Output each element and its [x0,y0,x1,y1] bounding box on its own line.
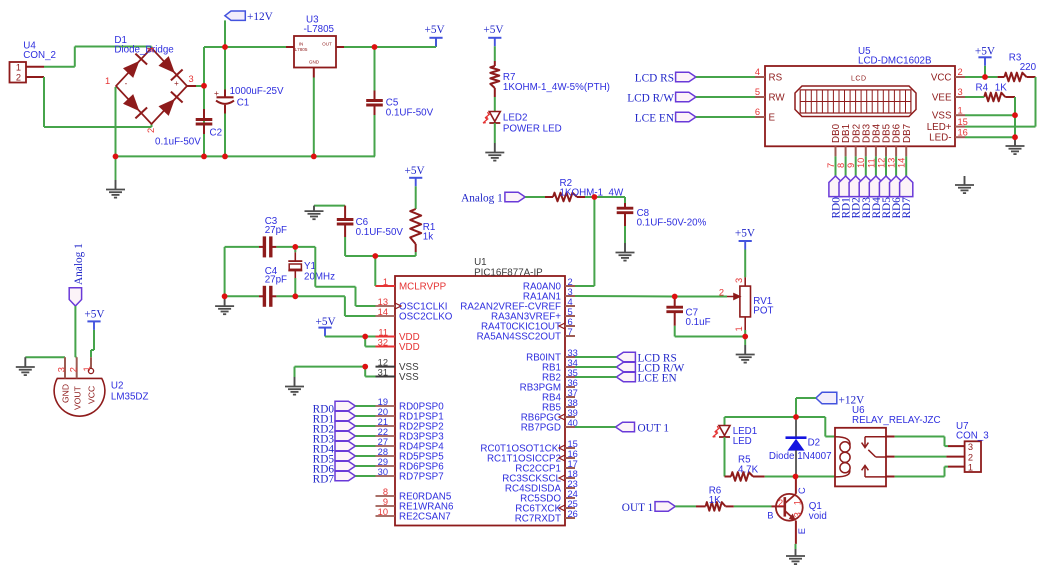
svg-text:30: 30 [378,467,388,477]
svg-text:20MHz: 20MHz [304,272,335,283]
wire node to MCLR [375,256,378,286]
svg-text:Diode_Bridge: Diode_Bridge [114,45,174,56]
wire RD4 to pin [355,445,375,447]
wire D2 top segment [795,417,797,437]
svg-text:C1: C1 [237,98,250,109]
svg-text:0.1UF-50V: 0.1UF-50V [386,107,434,118]
junction Y1 top [292,244,298,250]
svg-text:MCLRVPP: MCLRVPP [399,282,447,293]
svg-text:B: B [767,511,773,521]
svg-text:LCE EN: LCE EN [635,113,674,125]
pin 5 RA3AN3VREF+ [491,307,575,323]
net flag LCE EN at PIC [616,372,676,384]
junction C5 tap [372,44,378,50]
svg-text:VCC: VCC [87,386,97,404]
diode bridge D1 [105,35,194,133]
svg-text:5: 5 [755,87,760,97]
capacitor C2 [155,109,222,148]
wire RD3 to pin [355,435,375,437]
pin 26 RC7RXDT [515,509,578,525]
wire Y1 top [294,247,296,252]
net flag LCD RS at PIC [616,352,676,364]
svg-text:1: 1 [82,366,92,371]
wire C1 bottom [224,114,226,157]
junction relay +12V [793,414,799,420]
net flag RD7 at LCD [900,176,914,219]
svg-text:28: 28 [378,447,388,457]
svg-text:LCD R/W: LCD R/W [627,93,674,105]
ground above C6 [305,206,324,220]
svg-text:PIC16F877A-IP: PIC16F877A-IP [474,267,543,278]
pin 33 RB0INT [526,348,578,364]
wire +5V to pot [744,250,746,278]
svg-text:24: 24 [568,489,578,499]
junction rail C1 [222,154,228,160]
wire LED1 to R5 [724,437,726,477]
svg-text:13: 13 [887,158,897,168]
power +5V above RV1 [735,228,756,250]
svg-text:-: - [125,79,128,88]
junction LCD VSS [1012,112,1018,118]
wire VSS pin31 [365,367,375,377]
svg-text:3: 3 [57,367,67,372]
svg-text:+5V: +5V [84,309,105,321]
junction LCD VCC [982,74,988,80]
pin 22 RD3PSP3 [376,427,445,443]
wire LED2 to ground [494,123,496,143]
wire +12V to node [796,398,816,417]
stub D1.3 [187,85,196,87]
pin 27 RD4PSP4 [376,437,445,453]
svg-text:RD7: RD7 [313,473,335,485]
wire Y1 bottom [294,278,296,296]
svg-text:+5V: +5V [735,228,756,240]
junction rail left [113,154,119,160]
svg-text:OSC2CLKO: OSC2CLKO [399,312,453,323]
svg-text:8: 8 [383,487,388,497]
wire RD2 to pin [355,425,375,427]
connector U4 CON_2 [10,41,56,83]
power flag +12V at relay [816,392,865,406]
svg-text:6: 6 [568,317,573,327]
svg-text:9: 9 [846,163,856,168]
junction RA0 net [592,194,598,200]
pin 2 RA0AN0 [523,277,575,293]
LCD module U5 LCD-DMC1602B [755,46,968,168]
ground below rail [106,156,125,197]
net flag OUT 1 at Q1 [622,502,676,514]
wire RD0 to pin [355,405,375,407]
wire RD1 to pin [355,415,375,417]
relay U6 RELAY_RELAY-JZC [835,405,941,486]
svg-text:E: E [797,528,807,534]
wire DB6 to flag [895,156,897,176]
pin 15 RC0T1OSOT1CKI [480,439,577,455]
svg-text:27pF: 27pF [265,274,287,285]
svg-text:D2: D2 [808,438,821,449]
wire pin to LCD R/W [575,366,616,368]
junction collector node [793,474,799,480]
stub relay NO [886,476,895,478]
junction LCD LED- [1012,134,1018,140]
svg-text:36: 36 [568,378,578,388]
svg-text:3: 3 [568,287,573,297]
svg-text:+5V: +5V [425,24,446,36]
wire relay NC to CON3.3 [895,437,948,447]
net flag RD7 [313,471,356,485]
svg-text:Analog 1: Analog 1 [461,193,503,205]
wire +12V stem [224,20,226,47]
wire U4.1 to D1.4 [44,47,152,67]
svg-text:RELAY_RELAY-JZC: RELAY_RELAY-JZC [852,415,941,426]
net flag Analog 1 (R2) [461,192,525,204]
wire C3 right [276,246,295,248]
pin 9 RE1WRAN6 [376,497,454,513]
pin 1 MCLRVPP [376,277,447,293]
svg-text:LCD-DMC1602B: LCD-DMC1602B [858,55,932,66]
junction pot bottom [742,334,748,340]
pin 19 RD0PSP0 [376,397,445,413]
net flag RD3 [313,431,356,445]
resistor R5 [725,455,765,481]
net flag LCD R/W at LCD [627,92,696,104]
power +5V at LCD VCC [975,45,996,65]
svg-text:3: 3 [958,87,963,97]
pin 25 RC6TXCK [515,499,578,515]
power +5V above R7 [483,24,504,46]
wire R3 to LED+ [965,77,1036,127]
wire +5V to VDD [325,335,365,337]
wire C3 left [225,246,259,248]
stub relay NC [886,436,895,438]
pin 35 RB2 [542,368,578,384]
svg-text:RD7PSP7: RD7PSP7 [399,472,444,483]
svg-text:POT: POT [753,306,773,317]
ground at VSS [285,377,304,395]
svg-text:23: 23 [568,479,578,489]
svg-text:OUT 1: OUT 1 [622,502,654,514]
svg-text:16: 16 [568,449,578,459]
wire pot bottom [744,330,746,337]
wire R1 bottom [415,252,417,256]
floating ground [955,176,974,193]
pin 8 RE0RDAN5 [376,487,452,503]
ground below LED2 [485,143,504,161]
svg-text:RW: RW [769,92,786,103]
svg-text:1: 1 [968,462,973,472]
wire U3 GND down [313,78,315,157]
net flag RD4 at LCD [869,176,883,219]
svg-text:LCD RS: LCD RS [635,73,674,85]
svg-text:R4: R4 [976,82,989,93]
potentiometer RV1 POT [719,277,774,331]
pin 23 RC4SDISDA [505,479,578,495]
pin 40 RB7PGD [521,418,578,434]
svg-text:GND: GND [61,384,71,403]
resistor R6 [696,486,734,511]
svg-text:Analog 1: Analog 1 [73,243,85,285]
svg-text:void: void [809,511,827,522]
wire DB5 to flag [885,156,887,176]
svg-text:+5V: +5V [316,316,337,328]
wire C6 top to ground [314,205,345,207]
svg-text:14: 14 [378,307,388,317]
pin 2 stub of U4 [26,76,44,78]
pin 6 RA4T0CKIC1OUT [481,317,575,333]
capacitor C8 [617,203,707,228]
wire OUT1 to R6 [675,505,696,507]
wire VSS to node [965,114,1015,116]
wire Y1 to OSC1 [295,247,375,306]
wire RA1 to pot [575,295,727,298]
wire C5 bottom [374,115,377,156]
regulator U3 -L7805 [294,15,336,68]
pin 20 RD1PSP1 [376,407,444,423]
svg-text:39: 39 [568,408,578,418]
svg-text:15: 15 [568,439,578,449]
wire RD6 to pin [355,465,375,467]
wire DB3 to flag [865,156,867,176]
net flag RD2 at LCD [849,176,863,219]
net flag LCE EN at LCD [635,112,696,124]
capacitor C7 [666,297,710,329]
svg-text:11: 11 [866,158,876,168]
svg-text:VOUT: VOUT [73,385,83,410]
ground at emitter [786,549,805,564]
svg-text:6: 6 [755,107,760,117]
LED LED2 [483,112,562,135]
wire relay COM to CON3.2 [895,456,947,458]
pin 29 RD6PSP6 [376,457,445,473]
wire pin to LCD RS [575,356,616,358]
wire relay NO to CON3.1 [895,467,948,477]
svg-text:Diode 1N4007: Diode 1N4007 [769,451,832,462]
net flag RD0 [313,401,356,415]
svg-text:1: 1 [105,76,110,86]
svg-text:26: 26 [568,509,578,519]
net flag RD1 [313,411,356,425]
svg-text:15: 15 [958,117,968,127]
net flag RD1 at LCD [839,176,853,219]
capacitor C1 [214,86,284,114]
power +5V at VDD [316,316,337,336]
wire DB2 to flag [855,156,857,176]
svg-text:4: 4 [146,47,156,52]
svg-text:RC7RXDT: RC7RXDT [515,514,561,525]
wire VSS down [294,367,296,377]
svg-text:Y1: Y1 [304,261,316,272]
svg-text:VSS: VSS [399,372,419,383]
svg-text:LED+: LED+ [927,122,952,133]
pin 37 RB4 [542,388,578,404]
svg-text:19: 19 [378,397,388,407]
stub CON3 pin2 [946,456,964,458]
wire C5 top [374,47,376,91]
svg-text:LM35DZ: LM35DZ [111,391,149,402]
wire LM35 GND [25,356,65,358]
wire C4 right [276,295,295,297]
svg-text:3: 3 [792,512,802,517]
power +5V at regulator output [425,24,446,46]
svg-text:RB7PGD: RB7PGD [521,423,561,434]
pin 24 RC5SDO [520,489,578,505]
pin 14 OSC2CLKO [376,307,453,323]
svg-text:2: 2 [778,498,783,508]
svg-text:0.1UF-50V-20%: 0.1UF-50V-20% [637,217,707,228]
pin 16 RC1T1OSICCP2 [487,449,578,465]
pin 21 RD2PSP2 [376,417,444,433]
pin 36 RB3PGM [520,378,578,394]
svg-text:1: 1 [958,105,963,115]
net flag RD2 [313,421,356,435]
pin 34 RB1 [542,358,578,374]
wire C6 bottom [345,237,375,256]
resistor R3 [998,53,1037,82]
wire node to relay coil bottom [796,476,835,478]
svg-text:VDD: VDD [399,342,420,353]
wire C8 to ground [624,226,626,243]
junction C7 top [672,294,678,300]
pin 39 RB6PGC [521,408,578,424]
svg-text:17: 17 [568,459,578,469]
svg-text:C: C [797,487,807,494]
power flag +12V [225,11,274,23]
wire node to R3 [985,76,998,78]
wire node to R1 [375,255,415,257]
svg-text:21: 21 [378,417,388,427]
wire +5V to VCC [91,330,94,357]
svg-text:8: 8 [836,163,846,168]
power +5V at LM35 [84,309,105,330]
wire R6 to base [734,505,772,507]
svg-text:4: 4 [568,297,573,307]
wire U3 OUT to +5V node [344,38,436,47]
pin 4 RA2AN2VREF-CVREF [460,297,575,313]
svg-text:14: 14 [897,158,907,168]
capacitor C3 [259,216,287,257]
svg-text:9: 9 [383,497,388,507]
power +5V above R1 [405,165,426,186]
svg-text:11: 11 [378,327,388,337]
pin 32 VDD [376,337,420,353]
svg-text:LCD: LCD [851,76,867,83]
wire LED- to node [965,136,1015,138]
svg-text:+: + [214,88,219,98]
svg-text:1: 1 [16,62,21,72]
svg-text:38: 38 [568,398,578,408]
junction VSS [362,364,368,370]
stub CON3 pin1 [948,466,965,468]
svg-text:L7805: L7805 [295,47,308,52]
pin 17 RC2CCP1 [515,459,578,475]
svg-text:31: 31 [378,367,388,377]
svg-text:0.1uF-50V: 0.1uF-50V [155,137,201,148]
svg-text:+: + [174,79,179,88]
svg-text:VCC: VCC [931,72,952,83]
svg-text:RE2CSAN7: RE2CSAN7 [399,512,451,523]
svg-text:27pF: 27pF [265,225,287,236]
resistor R4 [976,82,1016,101]
svg-text:+5V: +5V [483,24,504,36]
wire U4.2 to D1.2 [44,77,152,127]
wire R4 down [1014,97,1016,137]
pin 3 RA1AN1 [523,287,575,303]
wire left rail C3-C4 [224,247,226,296]
pin 10 RE2CSAN7 [376,507,451,523]
svg-text:10: 10 [856,158,866,168]
stub CON3 pin3 [948,445,965,447]
wire C4 left [225,295,259,297]
wire Analog1 to VOUT [75,306,76,357]
wire D2 bottom segment [795,450,797,476]
svg-text:CON_2: CON_2 [23,50,56,61]
svg-text:2: 2 [968,452,973,462]
resistor R2 [545,178,624,201]
wire VCC to node [965,76,985,78]
microcontroller U1 PIC16F877A-IP [395,257,565,526]
svg-text:VEE: VEE [932,92,952,103]
junction MCLR node [372,253,378,259]
wire R5 to node [765,476,796,478]
wire C1 top [224,47,226,90]
wire +5V to R1 [415,186,417,209]
net flag OUT 1 at PIC [616,422,670,434]
stub U3 OUT [336,46,344,48]
svg-text:3: 3 [189,74,194,84]
svg-text:10: 10 [378,507,388,517]
svg-text:13: 13 [378,297,388,307]
wire C2 top [203,86,205,109]
svg-text:RD7: RD7 [901,197,913,219]
svg-text:1KOHM-1_4W-5%(PTH): 1KOHM-1_4W-5%(PTH) [503,82,610,93]
svg-text:2: 2 [146,128,156,133]
net flag RD4 [313,441,356,455]
net flag RD6 at LCD [890,176,904,219]
svg-text:27: 27 [378,437,388,447]
wire DB1 to flag [845,156,847,176]
junction rail U3 gnd [311,154,317,160]
LED LED1 [713,426,758,447]
wire pin40 to OUT1 [575,426,616,428]
wire VDD pin11 [365,336,375,338]
ground below potentiometer [736,337,755,363]
junction +12V tap [222,44,228,50]
wire RD7 to pin [355,475,375,477]
stub U3 GND [313,68,315,78]
wire D1.1 down to ground rail [115,87,117,156]
capacitor C6 [337,206,404,238]
svg-text:2: 2 [958,67,963,77]
wire VEE to R4 [965,96,984,98]
pin 31 VSS [376,367,420,383]
svg-text:0.1UF-50V: 0.1UF-50V [356,227,404,238]
svg-text:IN: IN [299,42,304,47]
svg-text:+5V: +5V [405,165,426,177]
svg-text:2: 2 [568,277,573,287]
junction VDD [362,334,368,340]
svg-text:GND: GND [309,60,320,65]
svg-text:DB7: DB7 [902,124,913,143]
svg-text:12: 12 [876,158,886,168]
svg-text:2: 2 [16,73,21,83]
wire +12V rail vertical [203,47,205,156]
svg-text:-L7805: -L7805 [304,24,335,35]
svg-text:+12V: +12V [247,11,274,23]
junction bridge output [201,83,207,89]
svg-text:2: 2 [68,367,78,372]
ground at LM35 [16,357,35,375]
svg-text:VSS: VSS [932,111,952,122]
